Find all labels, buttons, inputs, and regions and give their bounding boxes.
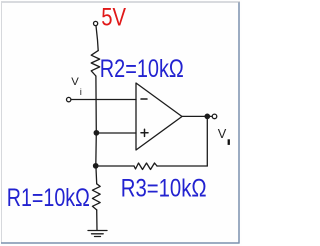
wire R3 right lead [157, 165, 207, 167]
svg-text:R2=10kΩ: R2=10kΩ [100, 55, 184, 83]
resistor R3 [134, 163, 157, 170]
svg-text:5V: 5V [101, 5, 126, 32]
svg-text:i: i [80, 87, 82, 98]
svg-text:R3=10kΩ: R3=10kΩ [121, 175, 207, 203]
svg-text:R1=10kΩ: R1=10kΩ [7, 184, 90, 212]
resistor R1 [92, 184, 100, 210]
op-amp plus pin mark [141, 132, 148, 134]
wire R3 left lead to node B [96, 165, 134, 167]
wire 5V to R2 [96, 26, 98, 51]
wire output down to R3 [206, 116, 208, 166]
wire R2 to node A [95, 76, 97, 133]
wire node A to node B [95, 133, 98, 166]
wire R1 to ground [96, 210, 98, 230]
terminal 5V [94, 21, 98, 25]
node A junction dot [94, 131, 98, 135]
wire output [182, 115, 212, 117]
ground [88, 230, 107, 232]
node C junction dot [205, 114, 209, 118]
wire input Vi to inverting input [71, 99, 136, 101]
node B junction dot [94, 164, 98, 168]
svg-text:V: V [218, 126, 227, 141]
wire node A to non-inverting input [96, 132, 136, 134]
op-amp U1 [136, 83, 182, 150]
svg-text:V: V [71, 76, 79, 88]
terminal Vi [67, 97, 71, 101]
op-amp minus pin mark [141, 98, 147, 100]
wire node B to R1 [95, 166, 98, 184]
resistor R2 [91, 51, 100, 76]
terminal Vo [212, 114, 217, 119]
